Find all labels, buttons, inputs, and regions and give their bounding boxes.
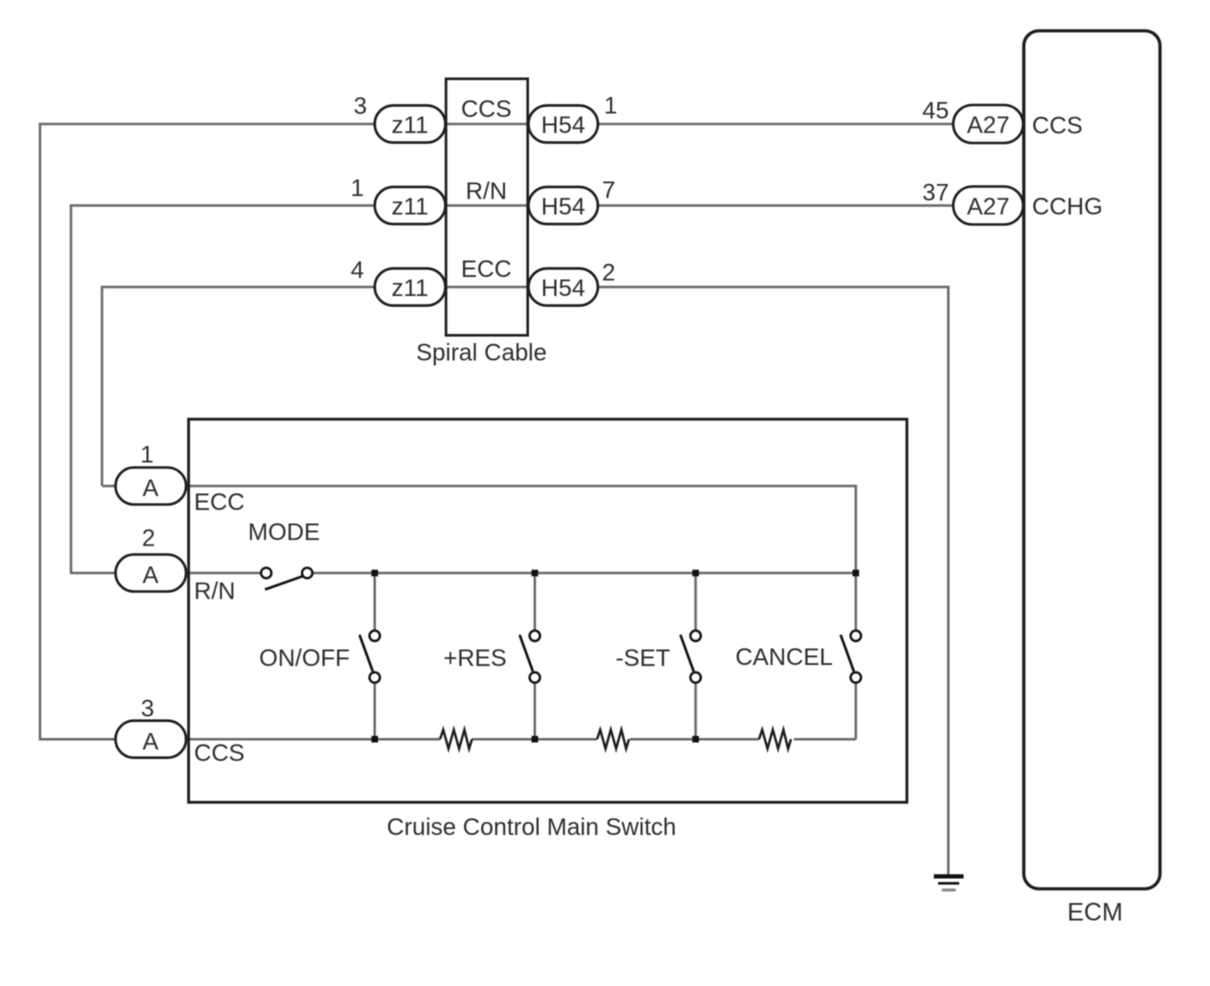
svg-text:3: 3 [354, 93, 367, 120]
connector H54 pin7 [528, 187, 598, 224]
cruise control main switch box [189, 419, 907, 802]
svg-text:-SET: -SET [616, 645, 671, 672]
svg-text:A: A [142, 729, 158, 756]
connector H54 pin1 [528, 105, 598, 142]
svg-text:CCS: CCS [1032, 113, 1083, 140]
wire CCS row from z11 pin3 to A27 pin45 [40, 124, 953, 739]
svg-text:A27: A27 [967, 112, 1010, 139]
svg-text:CCHG: CCHG [1032, 194, 1103, 221]
connector z11 pin4 [375, 268, 446, 305]
wire R/N to MODE left contact [186, 572, 261, 575]
svg-text:37: 37 [922, 180, 949, 207]
connector A pin1 [116, 468, 187, 505]
connector H54 pin2 [528, 268, 598, 305]
svg-text:ECC: ECC [461, 256, 512, 283]
wire CCS segment 2 [472, 738, 597, 741]
svg-text:z11: z11 [392, 194, 429, 221]
connector A pin2 [116, 555, 187, 592]
svg-text:R/N: R/N [194, 578, 235, 605]
svg-text:CCS: CCS [194, 740, 245, 767]
connector A27 pin37 [953, 187, 1023, 225]
svg-text:CANCEL: CANCEL [735, 644, 832, 671]
switch -SET [680, 631, 700, 683]
svg-text:ON/OFF: ON/OFF [259, 645, 350, 672]
svg-text:3: 3 [141, 696, 154, 723]
wire ON/OFF branch upper [373, 573, 376, 630]
svg-text:ECM: ECM [1067, 899, 1123, 927]
svg-text:ECC: ECC [194, 489, 245, 516]
junction dot R/N x855.8 [853, 570, 860, 577]
svg-text:A: A [142, 562, 158, 589]
junction dot CCS x374.7 [371, 736, 378, 743]
svg-text:H54: H54 [541, 275, 585, 302]
wire -SET branch upper [694, 573, 697, 630]
wire A1 stub [102, 485, 120, 488]
switch CANCEL [841, 631, 861, 683]
wire CCS inside switch box segment 1 [186, 738, 440, 741]
wire CANCEL branch lower [855, 683, 858, 739]
svg-text:2: 2 [142, 525, 155, 552]
svg-text:Spiral Cable: Spiral Cable [416, 340, 547, 367]
spiral cable box [446, 79, 528, 336]
wire ON/OFF branch lower [373, 683, 376, 739]
svg-text:45: 45 [922, 98, 949, 125]
wire -SET branch lower [694, 683, 697, 739]
svg-text:2: 2 [602, 260, 615, 287]
junction dot R/N x695.6 [692, 570, 699, 577]
svg-text:R/N: R/N [466, 178, 507, 205]
resistor R3 (-SET) [759, 730, 791, 749]
svg-text:+RES: +RES [443, 645, 506, 672]
svg-text:A27: A27 [967, 194, 1010, 221]
switch MODE [261, 568, 312, 590]
connector z11 pin1 [375, 187, 446, 224]
ECM box [1024, 31, 1160, 889]
connector z11 pin3 [375, 105, 446, 142]
junction dot R/N x534.8 [532, 570, 539, 577]
wire ECC row from z11 pin4 to ground [102, 287, 948, 875]
switch +RES [520, 631, 540, 683]
svg-text:z11: z11 [392, 112, 429, 139]
wire ECC inside switch box [186, 486, 856, 630]
svg-text:1: 1 [604, 93, 617, 120]
svg-text:7: 7 [602, 177, 615, 204]
junction dot CCS x534.8 [532, 736, 539, 743]
wire CCS segment 4 [794, 738, 856, 741]
resistor R2 (+RES) [597, 730, 629, 749]
connector A27 pin45 [953, 105, 1023, 143]
wire +RES branch lower [534, 683, 537, 739]
ground [934, 876, 964, 890]
svg-text:A: A [142, 475, 158, 502]
svg-text:H54: H54 [541, 194, 585, 221]
svg-text:4: 4 [351, 257, 364, 284]
svg-text:Cruise Control Main Switch: Cruise Control Main Switch [387, 814, 676, 841]
wire R/N from MODE right contact to CANCEL branch [312, 572, 855, 575]
wire CCS segment 3 [630, 738, 759, 741]
wire +RES branch upper [534, 573, 537, 630]
svg-text:MODE: MODE [248, 519, 320, 546]
svg-text:1: 1 [140, 442, 153, 469]
connector A pin3 [116, 721, 187, 758]
svg-text:H54: H54 [541, 112, 585, 139]
svg-text:CCS: CCS [461, 96, 512, 123]
wire R/N row from z11 pin1 to A27 pin37 [71, 206, 953, 574]
resistor R1 (ON/OFF) [440, 730, 472, 749]
svg-text:1: 1 [351, 175, 364, 202]
junction dot CCS x695.6 [692, 736, 699, 743]
svg-text:z11: z11 [392, 275, 429, 302]
junction dot R/N x374.7 [371, 570, 378, 577]
switch ON/OFF [360, 631, 380, 683]
